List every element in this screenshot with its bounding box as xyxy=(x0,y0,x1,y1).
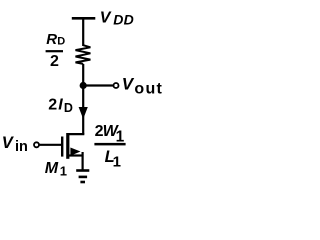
label VDD xyxy=(100,10,134,28)
transistor M1 drain line xyxy=(67,133,84,135)
VDD supply T-bar xyxy=(72,17,96,20)
label 2W1/L1 xyxy=(94,123,125,171)
ground bar 3 xyxy=(80,181,85,184)
svg-text:D: D xyxy=(64,101,73,115)
wire node to Vout terminal xyxy=(83,84,113,86)
svg-text:1: 1 xyxy=(113,153,121,170)
transistor M1 channel bar xyxy=(66,133,69,159)
svg-text:1: 1 xyxy=(116,128,125,145)
label 2ID current xyxy=(48,96,73,115)
label RD/2 xyxy=(46,31,66,70)
svg-text:DD: DD xyxy=(113,12,134,28)
terminal Vin open circle xyxy=(34,142,39,147)
transistor M1 gate bar xyxy=(61,137,63,157)
ground bar 1 xyxy=(76,169,89,172)
current arrow (down) xyxy=(79,107,88,119)
svg-text:1: 1 xyxy=(60,163,67,178)
terminal Vout open circle xyxy=(114,83,119,88)
svg-text:V: V xyxy=(100,10,112,27)
resistor RD/2 xyxy=(76,45,91,64)
wire node to drain xyxy=(82,86,84,135)
svg-text:V: V xyxy=(122,75,135,94)
svg-text:R: R xyxy=(46,31,57,48)
svg-text:2: 2 xyxy=(50,53,59,70)
svg-text:M: M xyxy=(45,160,59,177)
label Vout xyxy=(122,75,163,98)
label M1 xyxy=(45,160,67,178)
label Vin xyxy=(2,134,28,155)
wire VDD stem to resistor xyxy=(82,18,84,46)
svg-text:2: 2 xyxy=(48,96,57,113)
ground bar 2 xyxy=(79,176,88,179)
wire gate to Vin terminal xyxy=(39,144,61,146)
wire source to ground xyxy=(81,152,83,171)
transistor M1 source line xyxy=(67,154,82,156)
node dot (drain node) xyxy=(80,82,87,89)
svg-text:out: out xyxy=(134,80,163,97)
svg-text:I: I xyxy=(58,96,63,113)
svg-text:D: D xyxy=(57,36,65,48)
transistor M1 source arrow xyxy=(70,148,80,156)
svg-text:in: in xyxy=(15,139,28,155)
wire resistor to node xyxy=(82,64,84,86)
